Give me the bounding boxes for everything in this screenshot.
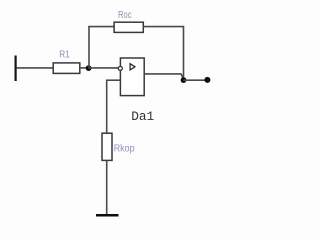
wire: node A to op-amp inverting input <box>89 67 119 69</box>
wire: feedback line to Roc <box>88 26 114 28</box>
wire: R1 to node A <box>80 67 88 69</box>
svg-text:Da1: Da1 <box>131 109 154 124</box>
op-amp triangle symbol <box>130 64 135 70</box>
svg-text:R1: R1 <box>59 49 70 61</box>
wire: Roc to feedback drop <box>143 26 184 28</box>
wire: second input down to Rkop <box>106 80 108 134</box>
wire: Rkop down to ground <box>106 160 108 214</box>
resistor Rkop (vertical) <box>102 133 112 160</box>
svg-text:Roc: Roc <box>118 9 132 21</box>
resistor R1 <box>53 63 80 74</box>
output node junction dot <box>181 77 187 83</box>
wire: input terminal to R1 <box>17 67 54 69</box>
wire: node A up to feedback line <box>88 27 90 68</box>
node A junction dot (R1 / feedback / op-amp input) <box>86 65 92 71</box>
resistor Roc <box>114 22 143 32</box>
output terminal dot <box>204 77 210 83</box>
input terminal (left port bar) <box>15 56 17 82</box>
wire: op-amp output <box>144 74 183 79</box>
op-amp inverting input bubble <box>118 66 122 70</box>
op-amp U1 body (rectangle) <box>120 58 144 96</box>
ground symbol <box>96 214 119 217</box>
wire: output node to output terminal <box>184 79 206 81</box>
wire: op-amp second input <box>107 79 121 81</box>
wire: feedback drop down to output node <box>183 27 185 80</box>
svg-text:Rkop: Rkop <box>114 142 135 154</box>
